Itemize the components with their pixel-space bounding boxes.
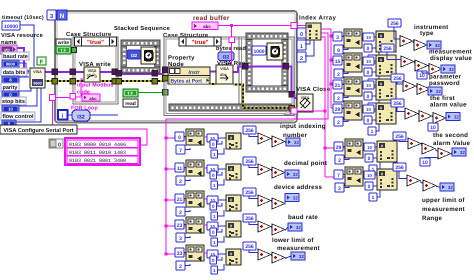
constant: 0 [364,116,372,124]
wire: 256 to multiply [249,134,258,137]
boolean control: write [56,46,71,54]
svg-text:32: 32 [293,196,298,201]
svg-text:21: 21 [335,83,341,89]
function: multiply/add triangle [429,64,442,75]
svg-text:15: 15 [335,59,341,65]
string constant row 3: 0103 0021 0001 3400 [67,156,138,163]
wire: subset to conversion [362,35,363,37]
svg-text:0: 0 [212,204,215,209]
wire: subset to conversion [363,145,364,147]
svg-text:0: 0 [367,118,370,124]
svg-text:timeout (10sec): timeout (10sec) [2,15,44,21]
numeric indicator terminal [440,183,454,191]
constant: 0 [365,182,373,190]
svg-text:3: 3 [179,236,182,242]
function: multiply/add triangle [415,60,428,71]
function: multiply/add triangle [401,56,414,67]
numeric indicator terminal [452,148,466,156]
svg-text:32: 32 [436,89,441,94]
svg-text:1: 1 [213,183,216,188]
wires: constants to string subset [343,174,347,176]
function: string subset [344,29,362,48]
svg-text:10: 10 [366,59,371,64]
FOR loop i terminal [58,110,68,120]
wire: to indicator [284,173,286,176]
function: multiply/add triangle [414,40,427,51]
constant: 1 [211,266,218,274]
svg-text:256: 256 [245,159,254,165]
wire [271,139,272,141]
wire: middle bus branch (decimal point) [166,168,188,170]
svg-text:10: 10 [8,107,13,112]
svg-text:0: 0 [212,142,215,147]
wires: constants to string subset [342,84,346,86]
function: string subset [345,167,363,186]
wire: read buffer to index array [218,25,293,27]
svg-text:0: 0 [58,143,61,149]
string constant row 1: 0103 0000 0010 4406 [67,140,138,147]
svg-text:0: 0 [368,156,371,162]
svg-text:stop bits: stop bits [2,99,25,105]
svg-text:measurement: measurement [277,245,320,252]
svg-text:2: 2 [337,120,340,126]
numeric indicator terminal [441,65,455,73]
constant: 1 [369,193,377,201]
wire: 256 to multiply [249,196,258,199]
svg-text:alarm Value: alarm Value [433,140,470,147]
numeric indicator terminal [288,223,302,231]
svg-text:display value: display value [430,55,472,62]
wire: read buffer loop bottom tunnel to bus [297,110,325,112]
wire: middle bus branch (input indexing) [166,137,188,139]
svg-text:2: 2 [337,96,340,102]
wires into scan node [219,225,227,227]
constant: 1 [211,238,218,246]
svg-text:29: 29 [336,145,342,151]
function: hex string to number [226,133,241,149]
wire: subset to conversion [362,83,363,85]
svg-text:0: 0 [212,230,215,235]
tunnel: purple case2 left [163,67,169,73]
conversion bullet [207,222,218,230]
constant: 9 [334,45,343,54]
wire: timeout constant to VISA Configure (blue) [20,25,34,67]
conversion bullet [363,33,374,41]
wire: middle bus branch (lower limit of) [166,253,188,255]
svg-text:I32: I32 [77,115,85,121]
svg-text:read: read [125,101,136,107]
wire: purple through inner sequence [246,66,288,68]
svg-text:0: 0 [300,32,303,38]
numeric indicator terminal [427,41,441,49]
svg-text:I32: I32 [131,53,138,58]
wire: stop bits to VISA Configure [19,88,37,106]
svg-text:VISA Configure Serial Port: VISA Configure Serial Port [3,127,73,134]
numeric indicator terminal [285,170,299,178]
wire: 10 to add [422,71,429,73]
wire: purple inside case 2 to VISA Read and beyond [168,71,216,73]
VI icon: VISA Configure Serial Port [30,68,45,88]
function: multiply/add triangle [408,138,421,149]
tunnel: purple seq1 right [152,71,158,77]
svg-text:0103 0000 0010 4406: 0103 0000 0010 4406 [69,142,126,148]
wire: 256 to multiply [249,222,258,225]
svg-text:0: 0 [368,184,371,190]
wires into scan node [219,253,227,255]
conversion bullet [207,165,218,173]
wire: baud rate to VISA Configure [19,63,29,73]
constant: 2 [334,117,343,126]
label: read [123,99,138,107]
string terminal: Modbus code (abc) [82,94,100,101]
svg-text:0103 0011 0010 1403: 0103 0011 0010 1403 [69,150,126,156]
wire: subset to conversion [204,136,207,138]
wire: 256 to multiply [399,171,407,179]
function: multiply/add triangle [258,195,271,206]
numeric indicator terminal [285,194,299,202]
constant: 256 [243,214,256,222]
wire: write boolean to case 1 selector [71,49,74,51]
wire: subset to conversion [204,224,207,226]
control terminal: stop bits [2,105,19,113]
string indicator: read buffer (abc) [192,22,218,30]
svg-text:2: 2 [179,264,182,270]
svg-text:2: 2 [338,158,341,164]
constant: 7 [176,145,185,154]
svg-text:2: 2 [338,186,341,192]
wire: 256 to multiply [397,107,405,112]
svg-text:32: 32 [454,115,459,120]
function: hex string to number [376,55,396,76]
function: multiply/add triangle [400,36,413,47]
wire: subset to conversion [204,252,207,254]
wire: to indicator [445,117,447,120]
function: hex string to number [376,79,396,100]
tunnel: olive case1 left [70,79,76,85]
svg-text:parity: parity [3,85,19,91]
svg-text:23: 23 [177,223,183,229]
constant: 2 [335,155,344,164]
wires into scan node [375,146,377,148]
wire: read buffer string from VISA Read (magenta vertical) [231,25,233,65]
tunnel: magenta FOR loop left border (string array) [50,95,56,101]
constant: 29 [333,104,342,113]
wire: modbus string into VISA Write [76,96,83,98]
indicator terminal: bytes read I32 [218,52,234,61]
label: write [56,39,71,46]
wires into scan node [374,60,376,62]
wire: index array output bus 3 (rows 5-6) [321,37,325,177]
constant: 0 [210,140,217,148]
constant: 0 [210,228,217,236]
function: hex string to number [376,103,396,124]
function: string subset [186,191,204,207]
svg-text:3: 3 [336,35,339,41]
wires: constants to string subset [184,136,188,138]
stacked sequence bottom film bar [169,104,291,111]
svg-text:input indexing: input indexing [280,123,326,130]
conversion bullet [363,105,374,113]
wires: constants to string subset [342,60,346,62]
svg-text:I32: I32 [223,55,230,61]
wire [414,63,415,64]
wire: index array output bus 2 (middle rows) [166,33,328,254]
wire [271,255,272,257]
svg-text:"true": "true" [87,39,104,46]
wire: to indicator [428,90,430,91]
conversion bullet [364,171,375,179]
wire: olive error line left of case 1 [45,80,70,82]
function: multiply/add triangle [258,164,271,175]
wire: subset to conversion [204,167,207,169]
wires into scan node [374,108,376,110]
wire: data bits to VISA Configure [19,76,29,78]
wire: olive through case 1 and gap [75,80,84,82]
svg-text:0103 0021 0001 3400: 0103 0021 0001 3400 [69,158,126,164]
inner stacked sequence left border [238,37,240,104]
svg-text:10: 10 [366,83,371,88]
svg-text:0: 0 [212,258,215,263]
svg-text:password: password [429,80,460,87]
svg-text:baud rate: baud rate [288,214,318,221]
array index box [49,139,63,148]
wires into scan node [374,36,376,38]
label: VISA Configure Serial Port [0,125,77,134]
numeric indicator terminal [428,87,442,95]
svg-text:TF: TF [127,91,134,96]
svg-text:write: write [57,40,70,46]
function: hex string to number [226,249,241,265]
function: string subset [344,53,362,72]
function: multiply/add triangle [405,108,418,119]
wire: middle bus branch (baud rate) [166,225,188,227]
wire: olive inside case 2 [168,78,171,80]
conversion bullet [363,81,374,89]
function: multiply/add triangle [403,81,416,92]
tunnel: olive case1 right [112,79,118,85]
svg-text:256: 256 [395,165,404,171]
constant: 256 [393,132,406,140]
svg-text:2: 2 [337,72,340,78]
svg-text:0: 0 [212,173,215,178]
case structure 1 border [73,37,118,104]
wires: index constants to Index Array [305,31,306,33]
svg-text:10: 10 [366,107,371,112]
function icon: metronome wait in sequence 1 [141,47,156,64]
label: flow control [1,112,35,120]
constant: 0 [364,92,372,100]
constant: timeout 10000 [2,21,20,30]
constant: 0 [210,171,217,179]
constant: 256 [391,74,404,82]
conversion: to I32 (rounded) [68,114,72,116]
tunnel: purple case2 right [289,92,295,98]
function: string subset [345,139,363,158]
function: multiply/add triangle [417,84,430,95]
wire [271,170,272,172]
tunnel: magenta FOR loop right border (bottom) [291,108,297,114]
conversion: I32 (blue) in sequence 1 [127,50,141,59]
string constant row 2: 0103 0011 0010 1403 [67,148,138,155]
constant: 2 [334,69,343,78]
tunnel: olive seq1 left [116,79,122,85]
wire [271,227,272,229]
svg-text:32: 32 [299,254,304,259]
wire: 10 to add [432,122,434,123]
svg-text:256: 256 [393,76,402,82]
svg-text:number: number [283,132,308,139]
wire: bus branch row 6 [325,176,347,178]
svg-text:1000: 1000 [253,49,264,55]
svg-text:256: 256 [245,216,254,222]
conversion bullet [207,250,218,258]
function: Index Array node [306,23,321,40]
tunnel: olive case2 right [289,106,295,112]
wires: constants to string subset [184,252,188,254]
constant: 3 [333,32,342,41]
constant: 10 [417,71,427,79]
svg-text:1: 1 [213,214,216,219]
wire [271,201,272,203]
svg-text:2: 2 [300,56,303,62]
wire: bus branch row 5 [325,147,347,149]
wires: constants to string subset [184,224,188,226]
wire: bus branch row 2 [331,59,346,61]
wire: subset to conversion [204,198,207,200]
wires into scan node [375,174,377,176]
wire: bus branch row 3 [331,83,346,85]
svg-text:256: 256 [245,128,254,134]
VI icon: VISA Close [297,94,313,112]
svg-text:TF: TF [60,48,67,53]
wire [428,66,429,69]
tunnel: magenta case1 left (modbus) [70,94,76,100]
VI icon: VISA Write [84,67,100,82]
constant: 256 [243,242,256,250]
svg-text:32: 32 [460,150,465,155]
property node body [168,67,210,84]
function: hex string to number [377,141,397,162]
svg-text:Stacked Sequence: Stacked Sequence [114,25,171,32]
wire: subset to conversion [362,107,363,109]
svg-text:0: 0 [367,94,370,100]
svg-text:0: 0 [367,46,370,52]
svg-text:32: 32 [294,140,299,145]
constant: 1 [369,165,377,173]
function: multiply/add triangle [258,249,271,260]
constant: 0 [365,154,373,162]
case structure 1 selector true [75,37,82,46]
svg-text:flow control: flow control [2,114,34,120]
function: multiply/add triangle [433,113,446,124]
tunnel: olive on FOR loop left border [52,79,58,85]
svg-text:1: 1 [300,44,303,50]
stacked sequence 1 frame [121,40,160,46]
wire [413,42,414,43]
constant: 0 [364,44,372,52]
svg-text:Range: Range [422,215,442,222]
constant: 3 (loop count) [47,10,56,20]
wire: 256 to multiply [399,140,408,142]
function: multiply/add triangle [438,148,451,159]
wire: to indicator [285,141,286,144]
wire: bus branch row 4 [331,107,346,109]
constant: 1 [211,212,218,220]
control terminal: baud rate [2,60,19,68]
svg-text:VISA: VISA [220,67,229,71]
wire: to indicator [285,227,288,231]
function: multiply/add triangle [272,224,285,235]
tunnel: magenta case2 top [229,37,235,43]
function icon: metronome wait in inner sequence [267,43,283,60]
tunnel: purple case1 right [112,69,118,75]
constant: 256 [381,44,394,52]
function: string subset [186,217,204,233]
FOR loop border [55,11,297,123]
svg-text:decimal point: decimal point [284,160,327,167]
function: multiply/add triangle [258,221,271,232]
resize handle case 2 [284,109,290,115]
svg-text:256: 256 [245,244,254,250]
wire [420,182,423,184]
function: multiply/add triangle [422,143,435,154]
wire: to indicator [285,256,291,259]
svg-text:9: 9 [337,48,340,54]
wire: to indicator [441,69,442,70]
wires into scan node [374,84,376,86]
constant: 1 [368,79,376,87]
svg-text:2: 2 [179,179,182,185]
wires into scan node [219,168,227,170]
svg-text:256: 256 [245,190,254,196]
function: multiply/add triangle [272,136,285,147]
svg-text:32: 32 [293,172,298,177]
svg-text:10000: 10000 [4,24,18,30]
numeric indicator terminal [291,252,305,260]
boolean constant F [37,57,46,65]
case structure 2 selector true [179,37,186,46]
constant: 1 [368,127,376,135]
constant: 256 [243,157,256,165]
wire: VISA resource name to VISA Configure (purple) [16,48,29,71]
function: hex string to number [376,31,396,52]
constant: 2 [176,261,185,270]
wire: error line to VISA Close [295,105,298,108]
svg-text:1: 1 [213,240,216,245]
svg-text:1: 1 [371,129,374,135]
wire: to indicator [451,152,452,155]
function: multiply/add triangle [272,167,285,178]
svg-text:type: type [420,30,434,37]
svg-text:Bytes at Port: Bytes at Port [171,79,203,85]
wires: constants to string subset [342,108,346,110]
control terminal: parity [2,91,19,99]
svg-text:32: 32 [435,43,440,48]
wire: 256 to multiply [249,165,258,168]
svg-text:device address: device address [274,184,323,191]
function: string subset [186,129,204,145]
constant: 1000 [252,46,266,55]
wires into scan node [219,199,227,201]
constant: 10 [428,123,438,131]
svg-text:measurement: measurement [422,206,465,213]
tunnel: magenta FOR loop right border (top) [291,23,297,29]
svg-text:256: 256 [383,46,392,52]
function: multiply/add triangle [258,133,271,144]
function: multiply/add triangle [272,252,285,263]
svg-text:0: 0 [367,70,370,76]
conversion bullet [363,57,374,65]
